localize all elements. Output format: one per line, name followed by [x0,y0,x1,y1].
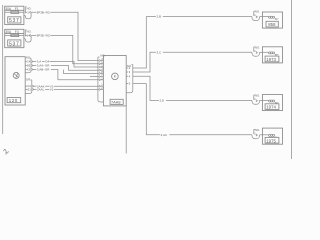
fuse F1 element [5,11,24,13]
svg-text:NO.: NO. [255,93,260,97]
svg-text:30A: 30A [5,7,12,11]
control unit K box [103,56,126,106]
svg-text:2,B: 2,B [157,15,162,19]
svg-text:B3: B3 [27,64,31,68]
right bus wire [291,0,293,159]
svg-text:120: 120 [9,98,18,103]
fuse F1 box [5,6,24,24]
svg-text:K3: K3 [27,68,31,72]
motor/pump unit box [5,57,25,105]
svg-text:8P3E–RC: 8P3E–RC [37,34,51,38]
fuse F4 label 537 [8,40,21,47]
svg-text:1974: 1974 [266,105,276,110]
fuse F4 element [5,34,24,36]
wire 2AAK-V1 motor to unit K [34,84,99,88]
svg-text:8P3B–RC: 8P3B–RC [37,10,51,14]
svg-text:V1: V1 [50,88,54,92]
svg-text:NO.: NO. [26,56,31,60]
connector NO. pin 1 at glow plug 3 [252,93,260,104]
wire 3,AC unit K to glow plug 4 [133,84,252,137]
svg-text:537: 537 [9,41,19,47]
wire 3,C unit K to glow plug 2 [133,50,252,72]
glow plug 2 heater element [260,52,280,56]
connector NO. pin 1 at glow plug 1 [252,10,260,21]
wire 3,AA-GR motor to unit K [33,64,99,71]
wire 8P3B-RC from F1 to unit K pin 4 [31,10,99,60]
svg-text:NO.: NO. [255,10,260,14]
connector GR. group at motor unit [25,78,34,94]
stub wire at unit K row 6 [90,76,99,78]
svg-text:F4: F4 [15,30,19,34]
wire 2,B unit K to glow plug 1 [133,15,252,68]
glow plug 3 heater element [260,100,280,104]
svg-text:30A: 30A [5,30,12,34]
fuse F1 label 537 [8,17,21,24]
page marker glyph bottom left [4,149,9,154]
svg-text:537: 537 [9,18,19,24]
svg-text:NO.: NO. [100,54,105,58]
glow plug 1 heater element [260,16,280,20]
svg-text:NO.: NO. [255,45,260,49]
ground drop wire from unit K [125,106,127,154]
wire 2AAL-V1 motor to unit K [34,88,99,92]
glow plug 4 box [262,128,282,144]
connector NO. left side of unit K [98,54,106,102]
svg-text:NO.: NO. [27,30,32,34]
svg-text:858: 858 [268,22,276,27]
connector NO. pin 1 at glow plug 2 [252,45,260,56]
svg-text:1973: 1973 [266,57,276,62]
glow plug 3 box [262,95,282,111]
fuse F4 box [5,29,24,47]
glow plug 2 box [262,47,282,63]
connector NO. group at motor unit [25,56,33,73]
svg-text:GR.: GR. [26,78,31,82]
left page border wire [2,5,4,134]
svg-text:3,AB–GR: 3,AB–GR [37,68,51,72]
svg-text:7AA8: 7AA8 [111,100,121,105]
wire 3,AB-GR motor to unit K [33,68,99,80]
svg-text:C4: C4 [27,60,31,64]
motor unit label 120 [7,98,21,103]
svg-text:2AAL: 2AAL [37,88,45,92]
glow plug 1 box [262,12,282,28]
svg-text:E1: E1 [28,88,32,92]
branch wire to unit K row 8 [63,70,99,74]
wire 8P3E-RC from F4 to unit K pin 5 [31,34,99,64]
glow plug 4 heater element [260,134,280,138]
connector NO. pin 1 at glow plug 4 [252,128,260,139]
motor symbol circle [13,72,19,78]
connector NO. pin 1 at F1 [24,6,32,18]
wire 2,D unit K to glow plug 3 [133,76,252,102]
unit K label 7AA8 [110,99,123,104]
unit K symbol circle [112,73,119,80]
connector NO. right side of unit K [126,64,133,93]
svg-text:NO.: NO. [27,6,32,10]
svg-text:3,AC: 3,AC [161,133,169,137]
connector NO. pin 14 at F4 [24,30,32,42]
svg-text:1975: 1975 [266,138,276,143]
svg-text:F1: F1 [15,7,19,11]
wire 3,A-G4 motor to unit K [33,60,99,67]
svg-text:NO.: NO. [255,128,260,132]
